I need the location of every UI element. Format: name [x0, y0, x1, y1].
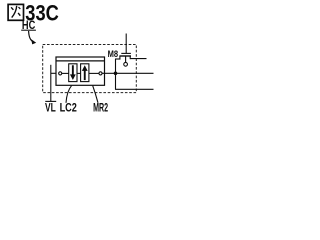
svg-text:LC2: LC2 [60, 103, 77, 115]
svg-text:MR2: MR2 [93, 103, 108, 115]
svg-text:M8: M8 [108, 49, 119, 59]
svg-text:VL: VL [45, 103, 56, 115]
